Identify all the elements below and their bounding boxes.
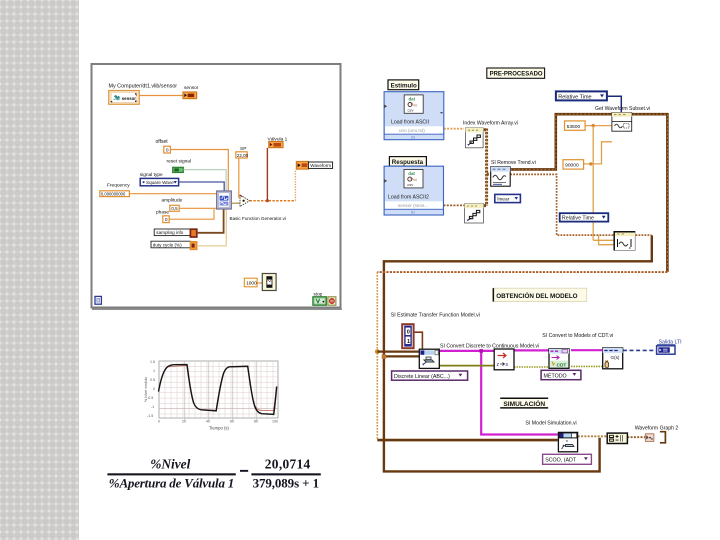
svg-text:Square Wave: Square Wave bbox=[146, 180, 174, 185]
svg-text:Basic Function Generator.vi: Basic Function Generator.vi bbox=[230, 216, 286, 221]
svg-text:90000: 90000 bbox=[565, 163, 579, 169]
svg-text:SI Model Simulation.vi: SI Model Simulation.vi bbox=[525, 420, 576, 426]
svg-text:Estímulo: Estímulo bbox=[391, 82, 417, 89]
svg-text:signal type: signal type bbox=[140, 172, 163, 178]
svg-text:phase: phase bbox=[156, 209, 169, 215]
wire relative time to subset bbox=[607, 96, 621, 112]
vi SI Model Simulation bbox=[558, 432, 577, 451]
svg-text:Load from ASCII: Load from ASCII bbox=[391, 120, 429, 126]
svg-text:SP: SP bbox=[240, 146, 246, 152]
wire remove trend bottom out dotted bbox=[510, 174, 651, 235]
svg-text:0: 0 bbox=[153, 387, 155, 391]
express vi Load from ASCII bbox=[384, 92, 444, 140]
svg-text:Tiempo (s): Tiempo (s) bbox=[209, 426, 229, 431]
function Get Waveform Components bbox=[614, 232, 635, 251]
indicator Salida LTI bbox=[657, 345, 676, 354]
constant duty cycle bbox=[151, 241, 197, 249]
wire brown branch to estimate block bbox=[384, 355, 419, 357]
constant array 0 1 bbox=[402, 324, 413, 348]
vi Basic Function Generator bbox=[217, 191, 232, 209]
svg-text:reset signal: reset signal bbox=[167, 158, 192, 164]
svg-text:SI Remove Trend.vi: SI Remove Trend.vi bbox=[491, 160, 536, 166]
wire bfg to subtract bbox=[231, 202, 240, 204]
node subtract bbox=[240, 195, 250, 207]
svg-text:amplitude: amplitude bbox=[162, 197, 183, 203]
svg-text:PRE-PROCESADO: PRE-PROCESADO bbox=[490, 72, 543, 78]
constant 53500 bbox=[565, 121, 586, 130]
svg-text:ini: ini bbox=[413, 178, 417, 182]
wire remove trend top out to subset loop bbox=[510, 114, 667, 272]
svg-text:Waveform: Waveform bbox=[310, 163, 331, 168]
wire components input2 bbox=[599, 235, 615, 245]
function Index Waveform Array 2 bbox=[465, 204, 484, 223]
svg-text:0,000000000: 0,000000000 bbox=[101, 191, 126, 196]
dropdown Relative Time lower bbox=[560, 213, 609, 222]
plot tick labels bbox=[147, 360, 278, 424]
svg-text:1: 1 bbox=[407, 339, 410, 345]
svg-text:-1: -1 bbox=[151, 405, 154, 409]
svg-text:ini: ini bbox=[414, 104, 418, 108]
label Estimulo bbox=[388, 80, 419, 90]
dropdown SISO bbox=[543, 454, 592, 464]
wire build to graph bbox=[627, 436, 645, 438]
formula equals dash bbox=[240, 470, 248, 472]
panel block-diagram window frame bbox=[92, 64, 341, 308]
svg-text:sensor: sensor bbox=[122, 96, 136, 101]
wire index chain vertical bbox=[484, 129, 491, 207]
svg-text:Relative Time: Relative Time bbox=[562, 216, 594, 222]
wire output dashed bbox=[250, 200, 296, 202]
svg-text:%Nivel: %Nivel bbox=[150, 457, 190, 472]
vi properties icon bbox=[95, 296, 101, 304]
svg-text:100: 100 bbox=[272, 420, 278, 424]
svg-text:duty cycle (%): duty cycle (%) bbox=[153, 242, 182, 247]
svg-text:sensor (sens...: sensor (sens... bbox=[398, 203, 428, 208]
indicator Waveform bbox=[296, 162, 332, 170]
panel bottom shade bbox=[92, 308, 342, 310]
svg-text:60: 60 bbox=[230, 420, 234, 424]
svg-text:Index Waveform Array.vi: Index Waveform Array.vi bbox=[463, 121, 518, 127]
wire sampling info bbox=[197, 209, 224, 233]
svg-text:Get Waveform Subset.vi: Get Waveform Subset.vi bbox=[595, 106, 650, 112]
wire magenta branch to simulation bbox=[481, 351, 558, 435]
svg-text:20: 20 bbox=[182, 420, 186, 424]
wire offset bbox=[171, 150, 229, 192]
wire 53500 to subset bbox=[585, 125, 612, 127]
indicator Waveform Graph bbox=[645, 432, 665, 443]
plot model red curve bbox=[159, 366, 277, 411]
svg-text:SI Estimate Transfer Function: SI Estimate Transfer Function Model.vi bbox=[391, 312, 480, 318]
plot measured black curve bbox=[159, 365, 277, 415]
svg-text:SCOO, (ADT: SCOO, (ADT bbox=[545, 458, 577, 464]
svg-text:-1.5: -1.5 bbox=[147, 414, 153, 418]
svg-text:40: 40 bbox=[206, 420, 210, 424]
svg-text:dat: dat bbox=[408, 171, 415, 176]
wire Frequency bbox=[130, 193, 217, 195]
wire to Waveform bbox=[294, 169, 296, 200]
dropdown METODO bbox=[541, 370, 581, 379]
svg-text:OBTENCIÓN DEL MODELO: OBTENCIÓN DEL MODELO bbox=[496, 291, 577, 300]
wire dotted left vertical bbox=[376, 272, 378, 440]
svg-text:%Apertura de Válvula 1: %Apertura de Válvula 1 bbox=[109, 476, 235, 491]
svg-text:linear: linear bbox=[497, 197, 509, 203]
wire 1000 to wait bbox=[257, 282, 262, 284]
svg-text:379,089s + 1: 379,089s + 1 bbox=[253, 476, 320, 491]
svg-text:Respuesta: Respuesta bbox=[392, 159, 424, 166]
express vi Load from ASCII2 bbox=[384, 166, 443, 215]
svg-text:csv: csv bbox=[408, 108, 414, 113]
textured side bar bbox=[0, 0, 79, 540]
svg-text:sampling info: sampling info bbox=[156, 230, 184, 235]
wire olive chain bbox=[439, 365, 494, 367]
svg-text:0: 0 bbox=[166, 148, 169, 154]
wire orange vertical long bbox=[593, 126, 614, 241]
svg-text:SI: SI bbox=[411, 210, 415, 215]
wire sensor to indicator bbox=[139, 95, 183, 97]
wire to simulation block bbox=[377, 439, 558, 442]
svg-text:csv: csv bbox=[407, 182, 413, 187]
dropdown Discrete Linear bbox=[392, 371, 468, 380]
svg-text:Waveform Graph 2: Waveform Graph 2 bbox=[635, 426, 679, 432]
svg-text:MÉTODO: MÉTODO bbox=[544, 372, 567, 379]
junction dotted vertical bbox=[375, 349, 380, 354]
plot frame bbox=[159, 361, 278, 418]
wire 90000 link bbox=[584, 142, 612, 164]
svg-text:0: 0 bbox=[158, 420, 160, 424]
wire express estimulo to index1 bbox=[444, 128, 464, 130]
svg-text:1000: 1000 bbox=[246, 281, 257, 287]
svg-text:0: 0 bbox=[407, 330, 410, 336]
svg-text:Frequency: Frequency bbox=[107, 183, 130, 189]
svg-text:% Nivel medido: % Nivel medido bbox=[144, 377, 148, 402]
svg-text:offset: offset bbox=[156, 139, 169, 145]
wire SP to subtract bbox=[238, 158, 240, 198]
function Wait ms bbox=[262, 274, 276, 291]
label Respuesta bbox=[389, 157, 426, 167]
svg-text:1: 1 bbox=[153, 369, 155, 373]
svg-text:80: 80 bbox=[254, 420, 258, 424]
svg-text:53500: 53500 bbox=[567, 124, 581, 130]
wire duty cycle bbox=[197, 209, 226, 246]
svg-text:1.5: 1.5 bbox=[150, 360, 155, 364]
wire phase bbox=[169, 209, 214, 219]
junction magenta bbox=[479, 349, 483, 353]
formula fraction bar right bbox=[251, 473, 320, 475]
wire to estimate block input1 bbox=[377, 351, 419, 353]
vi SI Estimate Transfer Function Model bbox=[419, 349, 439, 368]
junction brown branch bbox=[382, 354, 386, 358]
title PRE-PROCESADO bbox=[487, 68, 545, 78]
svg-text:G(s): G(s) bbox=[611, 355, 620, 360]
wire express respuesta to index2 bbox=[444, 204, 465, 206]
wire outer dashed return bbox=[377, 271, 667, 273]
svg-text:sensor: sensor bbox=[184, 85, 199, 91]
formula fraction bar left bbox=[107, 473, 235, 475]
svg-text:dat: dat bbox=[409, 97, 416, 102]
wire reset signal bbox=[183, 170, 226, 192]
wire blue dashed LTI out bbox=[623, 349, 656, 351]
junction 53500 bbox=[592, 124, 595, 127]
svg-text:CDT: CDT bbox=[557, 362, 567, 368]
wire signal type bbox=[179, 182, 225, 191]
wire amplitude bbox=[179, 207, 216, 209]
vi Get Waveform Subset bbox=[612, 113, 632, 132]
wire simulation to build bbox=[578, 435, 607, 437]
shared variable node sensor bbox=[109, 91, 140, 105]
button abort bbox=[328, 297, 336, 305]
title OBTENCION DEL MODELO bbox=[493, 288, 587, 301]
svg-text:0: 0 bbox=[165, 217, 168, 223]
svg-text:20,0714: 20,0714 bbox=[265, 457, 311, 472]
vi SI Convert to Models of CDT bbox=[549, 349, 569, 369]
svg-text:0,5: 0,5 bbox=[171, 206, 178, 211]
function Build Waveform bbox=[607, 433, 627, 443]
svg-text:uno (uno.txt): uno (uno.txt) bbox=[399, 128, 425, 133]
dropdown linear bbox=[495, 194, 521, 202]
svg-text:Relative Time: Relative Time bbox=[558, 94, 591, 100]
vi SI Convert Discrete to Continuous bbox=[494, 349, 514, 370]
svg-text:SI Convert to Models of CDT.vi: SI Convert to Models of CDT.vi bbox=[542, 333, 613, 339]
constant sampling info bbox=[154, 229, 197, 237]
svg-text:SIMULACIÓN: SIMULACIÓN bbox=[503, 399, 545, 408]
constant 1000 bbox=[244, 278, 257, 287]
svg-text:22,00: 22,00 bbox=[237, 153, 249, 158]
junction 90000 bbox=[589, 162, 592, 165]
vi SI Remove Trend bbox=[491, 167, 511, 186]
svg-text:Discrete Linear (ABC...): Discrete Linear (ABC...) bbox=[394, 374, 450, 380]
wire to Valvula 1 bbox=[266, 148, 268, 201]
constant 90000 bbox=[563, 160, 584, 169]
svg-text:stop: stop bbox=[314, 291, 323, 296]
svg-text:SI: SI bbox=[411, 135, 415, 140]
dropdown Relative Time top bbox=[556, 91, 607, 100]
plot grid bbox=[159, 361, 278, 418]
vi Draw Transfer Function Gs bbox=[603, 348, 623, 369]
svg-text:My Computer/dt1.vlib/sensor: My Computer/dt1.vlib/sensor bbox=[109, 84, 178, 90]
svg-text:SI Convert Discrete to Continu: SI Convert Discrete to Continuous Model.… bbox=[440, 344, 539, 350]
wire big brown loop bbox=[384, 235, 652, 471]
title SIMULACION bbox=[500, 398, 548, 408]
function Index Waveform Array 1 bbox=[466, 128, 484, 148]
wire magenta model chain bbox=[439, 349, 602, 352]
svg-text:Load from ASCII2: Load from ASCII2 bbox=[388, 195, 429, 201]
svg-text:0.5: 0.5 bbox=[150, 378, 155, 382]
wire constant01 to estimate bbox=[414, 332, 423, 349]
junction output bbox=[266, 199, 269, 202]
